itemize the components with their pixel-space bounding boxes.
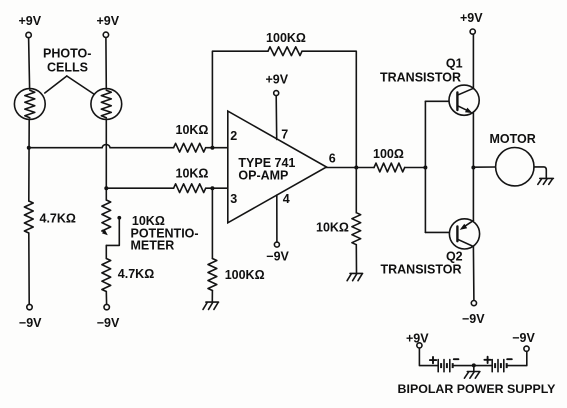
- wire photocell 1 to resistor: [28, 119, 30, 201]
- svg-text:3: 3: [230, 192, 237, 206]
- svg-text:100KΩ: 100KΩ: [225, 268, 265, 282]
- op-amp U1 triangle: [228, 111, 327, 223]
- terminal +9V Q1: [470, 29, 475, 34]
- terminal -9V Q2: [471, 301, 476, 306]
- resistor R7 100 ohm series: [374, 163, 405, 172]
- terminal +9V pin 7: [274, 91, 279, 96]
- svg-text:OP-AMP: OP-AMP: [238, 168, 288, 182]
- wire +9V to photocell 1: [29, 38, 30, 89]
- svg-text:10KΩ: 10KΩ: [316, 221, 349, 235]
- svg-text:TRANSISTOR: TRANSISTOR: [380, 70, 461, 84]
- junction base rail: [423, 166, 427, 170]
- svg-text:10KΩ: 10KΩ: [176, 166, 209, 180]
- ground output load: [350, 272, 363, 274]
- svg-text:−9V: −9V: [512, 331, 535, 345]
- wire Q1 emitter to motor node: [472, 113, 474, 168]
- battery B1: [437, 360, 439, 372]
- battery B2: [491, 360, 493, 372]
- svg-text:4.7KΩ: 4.7KΩ: [40, 211, 76, 225]
- transistor Q1: [449, 85, 479, 115]
- svg-text:4.7KΩ: 4.7KΩ: [118, 267, 154, 281]
- svg-text:MOTOR: MOTOR: [489, 132, 535, 146]
- wire pot to 4.7K right: [105, 245, 107, 258]
- wire B1 to center junction: [453, 365, 493, 367]
- wire R7 to transistor bases: [405, 167, 426, 169]
- svg-text:7: 7: [281, 128, 288, 142]
- wire Q1 base: [425, 100, 457, 102]
- wiper wire: [106, 218, 119, 246]
- svg-text:BIPOLAR POWER SUPPLY: BIPOLAR POWER SUPPLY: [398, 382, 557, 396]
- svg-text:4: 4: [283, 192, 290, 206]
- wire pin3 to ground resistor: [211, 188, 213, 258]
- battery B2 plus label: [484, 357, 490, 363]
- terminal +9V photocell 1: [26, 32, 31, 37]
- ground motor: [540, 177, 554, 179]
- wire Q2 emitter to motor node: [472, 168, 474, 221]
- svg-text:Q1: Q1: [446, 56, 463, 70]
- svg-text:CELLS: CELLS: [47, 61, 88, 75]
- svg-text:+9V: +9V: [266, 72, 289, 86]
- battery B1 minus label: [454, 358, 459, 360]
- ground pin3 network: [206, 301, 219, 303]
- svg-text:+9V: +9V: [19, 14, 42, 28]
- potentiometer wiper tap dot: [117, 216, 121, 220]
- svg-text:−9V: −9V: [266, 250, 289, 264]
- resistor R4 100K to ground: [208, 259, 217, 291]
- junction output node: [354, 166, 358, 170]
- wire +9V to photocell 2: [105, 38, 107, 89]
- terminal -9V left: [27, 304, 32, 309]
- battery B1 plus label: [430, 357, 436, 363]
- wire R2 to op-amp pin 3: [206, 187, 228, 189]
- wire motor to ground: [534, 167, 546, 178]
- svg-text:100KΩ: 100KΩ: [266, 31, 306, 45]
- svg-text:100Ω: 100Ω: [373, 147, 404, 161]
- wire common to ground: [473, 365, 475, 371]
- junction supply common: [472, 363, 476, 367]
- pointer line to photocell 1: [45, 76, 67, 93]
- wire Q1 collector to +9V: [472, 34, 474, 88]
- wire pin 4 supply: [276, 195, 278, 242]
- photocell PC2: [91, 89, 122, 120]
- junction node B (pin3 net): [104, 186, 108, 190]
- wire base rail vertical: [424, 101, 426, 232]
- svg-text:−9V: −9V: [462, 312, 485, 326]
- svg-text:METER: METER: [131, 239, 175, 253]
- wire output to 10K load: [355, 168, 357, 213]
- resistor R6 10K output load: [352, 213, 361, 245]
- terminal +9V supply: [417, 343, 422, 348]
- potentiometer arrow tip: [102, 231, 105, 234]
- terminal -9V right: [104, 304, 109, 309]
- wire inverting input row (node A) with crossover hop: [29, 145, 174, 148]
- resistor 4.7K left: [24, 201, 33, 233]
- svg-text:TRANSISTOR: TRANSISTOR: [380, 263, 461, 277]
- svg-text:PHOTO-: PHOTO-: [43, 47, 91, 61]
- svg-text:10KΩ: 10KΩ: [176, 123, 209, 137]
- svg-text:+9V: +9V: [460, 11, 483, 25]
- ground supply common: [467, 371, 480, 373]
- resistor 4.7K right: [102, 259, 111, 292]
- terminal +9V photocell 2: [103, 32, 108, 37]
- wire feedback right side: [302, 51, 356, 167]
- svg-text:+9V: +9V: [97, 14, 120, 28]
- wire R1 to op-amp pin 2: [206, 147, 228, 149]
- svg-text:Q2: Q2: [446, 249, 463, 263]
- wire op-amp output pin 6: [327, 167, 375, 169]
- junction pin 3 / ground resistor: [210, 186, 214, 190]
- wire motor node to motor: [473, 166, 495, 168]
- svg-text:2: 2: [230, 129, 237, 143]
- resistor R2 10K noninverting input: [174, 184, 206, 193]
- wire noninverting input row (node B): [106, 187, 173, 189]
- junction node A (pin2 net): [27, 146, 31, 150]
- terminal -9V supply: [524, 346, 529, 351]
- wire +9V supply to battery B1: [419, 348, 438, 366]
- wire pin 7 supply: [275, 96, 278, 140]
- photocell PC1: [14, 89, 45, 120]
- svg-text:−9V: −9V: [19, 316, 42, 330]
- wire 4.7K right to -9V: [105, 292, 107, 305]
- wire photocell 2 down to potentiometer: [105, 119, 107, 200]
- resistor R5 100K feedback: [268, 47, 302, 56]
- wire Q2 base: [425, 231, 457, 233]
- potentiometer R3 10K body: [102, 200, 111, 231]
- terminal -9V pin 4: [274, 242, 279, 247]
- junction motor node: [471, 166, 475, 170]
- wire resistor to -9V terminal left: [28, 233, 30, 304]
- wire B2 to -9V terminal: [507, 351, 527, 365]
- wire Q2 collector to -9V: [472, 247, 475, 301]
- junction feedback / pin 2: [210, 146, 214, 150]
- battery B2 minus label: [507, 358, 512, 360]
- svg-text:−9V: −9V: [97, 316, 120, 330]
- motor M1: [496, 148, 534, 186]
- resistor R1 10K inverting input: [174, 143, 206, 152]
- wire R4 to ground: [211, 291, 213, 302]
- wire feedback loop: [212, 51, 268, 148]
- transistor Q2: [449, 219, 479, 249]
- svg-text:6: 6: [329, 152, 336, 166]
- wire R6 to ground: [355, 245, 357, 273]
- pointer line to photocell 2: [67, 76, 94, 94]
